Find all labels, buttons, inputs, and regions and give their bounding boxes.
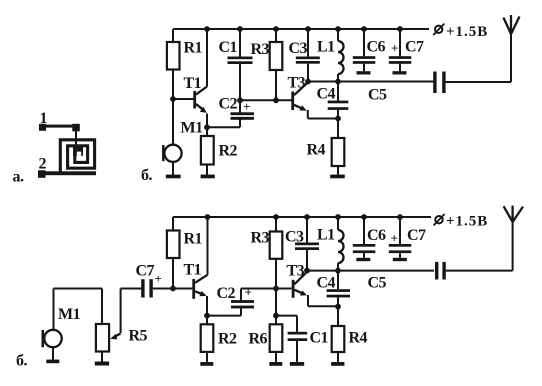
svg-text:б.: б. — [16, 353, 28, 370]
svg-text:C2: C2 — [219, 96, 238, 113]
svg-text:C4: C4 — [317, 275, 336, 292]
svg-text:б.: б. — [141, 167, 153, 184]
svg-text:R4: R4 — [349, 330, 368, 347]
svg-text:L1: L1 — [317, 39, 335, 56]
svg-text:R3: R3 — [251, 41, 270, 58]
svg-text:T3: T3 — [287, 263, 305, 280]
svg-text:R3: R3 — [251, 230, 270, 247]
svg-text:R2: R2 — [219, 143, 238, 160]
svg-text:C4: C4 — [317, 86, 336, 103]
svg-text:R2: R2 — [218, 331, 237, 348]
svg-text:R1: R1 — [184, 40, 203, 57]
svg-text:+: + — [391, 41, 398, 56]
svg-text:R6: R6 — [249, 331, 268, 348]
svg-text:C3: C3 — [289, 40, 308, 57]
svg-text:+1.5В: +1.5В — [446, 214, 488, 230]
svg-text:T1: T1 — [184, 262, 202, 279]
svg-text:+: + — [155, 271, 162, 286]
svg-text:+: + — [243, 99, 250, 114]
svg-text:R4: R4 — [307, 142, 326, 159]
svg-text:C6: C6 — [367, 39, 386, 56]
svg-text:C5: C5 — [368, 275, 387, 292]
svg-text:C6: C6 — [367, 227, 386, 244]
svg-text:+: + — [245, 285, 252, 300]
svg-text:C1: C1 — [310, 330, 329, 347]
svg-text:T1: T1 — [184, 75, 202, 92]
svg-text:T3: T3 — [288, 75, 306, 92]
svg-text:C1: C1 — [219, 39, 238, 56]
svg-text:M1: M1 — [58, 306, 81, 323]
svg-text:C7: C7 — [407, 227, 426, 244]
svg-text:C3: C3 — [285, 229, 304, 246]
svg-text:а.: а. — [13, 169, 25, 186]
svg-text:M1: M1 — [181, 120, 204, 137]
svg-text:C5: C5 — [368, 87, 387, 104]
svg-text:+: + — [391, 231, 398, 246]
svg-text:C7: C7 — [136, 263, 155, 280]
svg-text:L1: L1 — [317, 227, 335, 244]
svg-text:R1: R1 — [184, 231, 203, 248]
svg-text:2: 2 — [39, 156, 47, 173]
svg-text:C7: C7 — [405, 39, 424, 56]
svg-text:C2: C2 — [217, 285, 236, 302]
svg-text:+1.5В: +1.5В — [446, 24, 488, 40]
svg-text:R5: R5 — [129, 328, 148, 345]
